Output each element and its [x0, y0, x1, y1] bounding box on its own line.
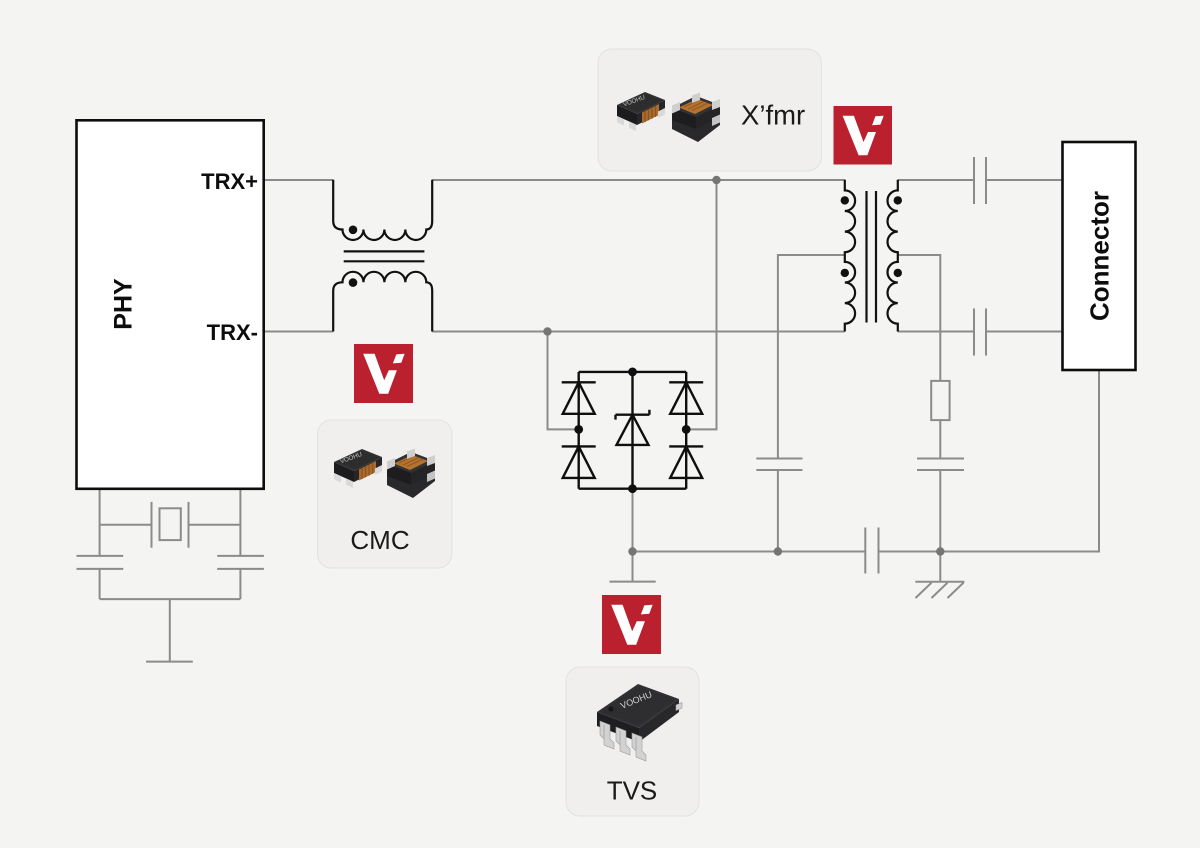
wire TRX- PHY to CMC [264, 331, 333, 333]
zener Z1 center [616, 410, 650, 445]
polarity dots transformer [841, 196, 902, 277]
wire bottom rail right to connector [879, 370, 1100, 552]
card X'fmr [598, 49, 822, 171]
wire PHY crystal right stub [239, 489, 241, 556]
photo X'fmr package open [672, 93, 720, 143]
wire C7 to rail [239, 569, 241, 599]
node bottom rail C2 [936, 547, 944, 555]
svg-text:X’fmr: X’fmr [741, 100, 805, 131]
logo badge TVS [602, 595, 661, 654]
wire bottom rail left [633, 551, 866, 553]
wire TRX+ PHY to CMC [264, 179, 333, 181]
diode D4 right bottom [669, 446, 703, 478]
ground crystal bar [146, 661, 193, 663]
capacitor C4 bottom series [974, 309, 986, 356]
svg-text:PHY: PHY [110, 278, 138, 330]
crystal Y1 plates [152, 502, 189, 548]
wire capacitor C1 to bottom rail [777, 470, 779, 552]
wire TVS bottom to rail [632, 489, 634, 552]
ground earth hatches [916, 583, 964, 598]
wire crystal right [189, 524, 241, 526]
photo X'fmr package closed [617, 92, 665, 131]
capacitor C7 right load [217, 556, 264, 569]
diode D3 right top [669, 382, 703, 414]
ground TVS bar [610, 581, 656, 583]
photo CMC package closed [334, 449, 382, 488]
card CMC [318, 420, 453, 568]
wire crystal ground stub [169, 599, 171, 662]
diode D1 left top [562, 382, 596, 414]
ground TVS stub [632, 552, 634, 582]
Connector block [1063, 142, 1136, 370]
svg-text:TRX+: TRX+ [201, 169, 258, 194]
crystal Y1 body [160, 508, 181, 540]
svg-text:CMC: CMC [350, 525, 409, 555]
svg-text:TRX-: TRX- [207, 320, 258, 345]
node junction dots gray [543, 176, 944, 556]
wire crystal ground rail [100, 598, 241, 600]
wire resistor to capacitor [939, 420, 941, 458]
ground earth stub [939, 552, 941, 582]
capacitor C5 bottom rail series [865, 528, 878, 574]
photo TVS package [597, 684, 682, 761]
wire PHY crystal left stub [99, 489, 101, 556]
diode D2 left bottom [562, 446, 596, 478]
CMC winding top [333, 180, 432, 240]
svg-text:Connector: Connector [1085, 191, 1115, 321]
CMC core lines [344, 251, 425, 261]
wire C6 to rail [99, 569, 101, 599]
node TRX+ junction [712, 176, 720, 184]
node bottom rail C1 [774, 547, 782, 555]
wire transformer right center tap [898, 255, 941, 381]
TVS center leg line [631, 372, 633, 489]
logo badge CMC [354, 344, 413, 403]
wire transformer to capacitor C3 [898, 179, 974, 181]
photo CMC package open [387, 449, 435, 499]
wire capacitor C2 to bottom rail [939, 470, 941, 552]
wire capacitor C4 to connector [986, 331, 1063, 333]
wire transformer left center tap [778, 255, 845, 459]
CMC winding bottom [333, 272, 432, 332]
wire transformer to capacitor C4 [898, 331, 974, 333]
capacitor C1 left center-tap [756, 459, 802, 471]
capacitor C6 left load [77, 556, 124, 569]
transformer T1 primary winding [845, 180, 855, 332]
wire node TRX+ down to TVS right [686, 180, 716, 429]
node TRX- junction [543, 327, 551, 335]
TVS junction dots [574, 368, 690, 494]
resistor R1 [931, 381, 949, 420]
node bottom rail TVS [628, 547, 636, 555]
TVS bottom rail [579, 488, 687, 490]
wire capacitor C3 to connector [986, 179, 1063, 181]
transformer T1 secondary winding [888, 180, 898, 332]
PHY block [77, 120, 264, 489]
transformer T1 core [867, 191, 877, 323]
card TVS [566, 667, 699, 816]
TVS leads [600, 703, 682, 762]
TVS top rail [579, 371, 687, 373]
wire crystal left [100, 524, 152, 526]
svg-text:TVS: TVS [607, 776, 658, 806]
TVS left leg line [578, 372, 580, 489]
polarity dots CMC [349, 226, 358, 287]
capacitor C3 top series [974, 157, 986, 204]
TVS right leg line [685, 372, 687, 489]
wire node TRX- down to TVS left [548, 332, 579, 430]
wire TRX- CMC to transformer [432, 331, 845, 333]
logo badge X'fmr [834, 106, 893, 165]
wire TRX+ CMC to transformer [432, 179, 845, 181]
capacitor C2 right center-tap [917, 459, 964, 471]
ground earth bar [915, 581, 964, 583]
